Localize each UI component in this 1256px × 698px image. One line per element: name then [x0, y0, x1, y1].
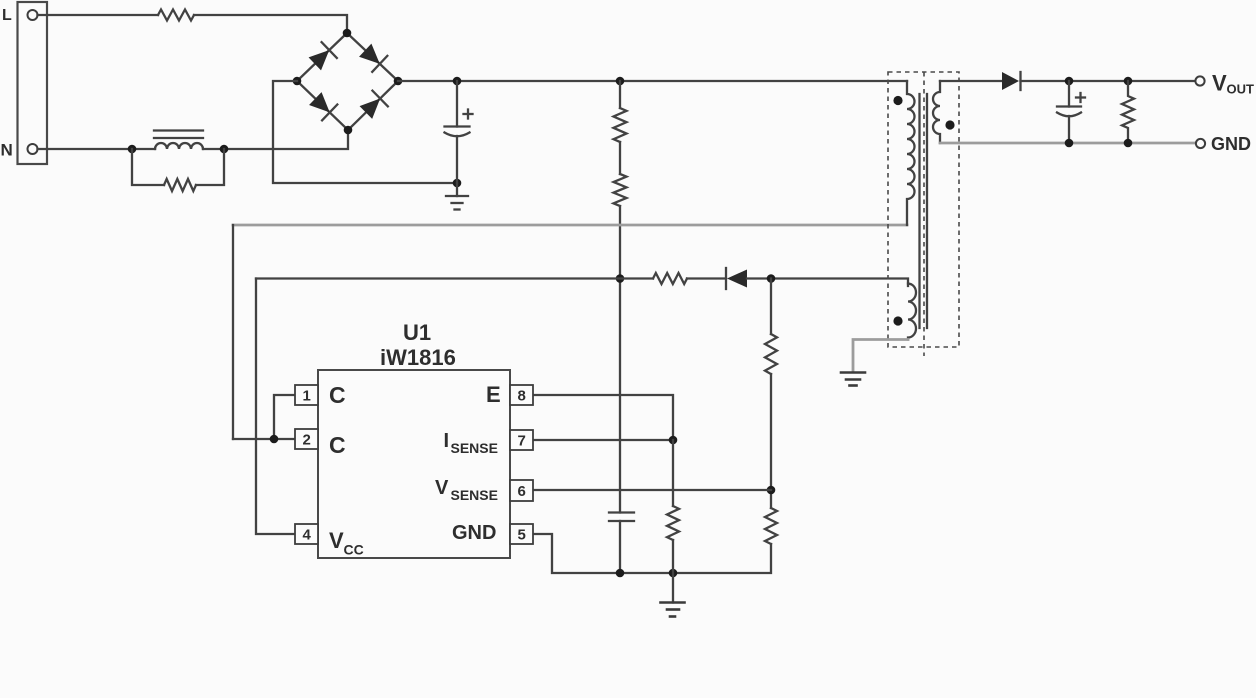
node bridge left vertex	[293, 77, 302, 86]
svg-text:N: N	[1, 141, 13, 160]
resistor R2 (choke damping)	[164, 179, 196, 191]
wire collector vertical	[232, 225, 234, 439]
pin 7 box	[510, 430, 533, 450]
node rail at bulk cap	[453, 77, 462, 86]
wire R4 down to C2	[619, 206, 621, 513]
wire to R8	[672, 440, 674, 506]
svg-text:V: V	[1212, 71, 1227, 96]
svg-text:8: 8	[518, 388, 526, 405]
resistor R6	[765, 334, 777, 374]
node gnd rail at R8	[669, 569, 678, 578]
wire bridge left leg to input ground rail	[273, 81, 457, 183]
inductor L1 common-mode choke winding	[155, 143, 203, 149]
terminal L pin circle	[28, 10, 38, 20]
node pin1-pin2 junction	[270, 435, 279, 444]
wire R7 to gnd rail corner	[533, 534, 771, 573]
wire pin1 loop	[274, 395, 295, 439]
ground signal	[661, 603, 685, 617]
wire pin2	[233, 438, 295, 440]
transformer core bar 2	[926, 94, 928, 328]
bridge rectifier BR1 diamond	[297, 33, 398, 130]
pin 6 box	[510, 480, 533, 501]
node E-Isense junction	[669, 436, 678, 445]
pin 8 box	[510, 385, 533, 405]
bridge diode D1	[307, 42, 337, 72]
capacitor C2	[609, 513, 634, 522]
bridge diode D4	[358, 91, 388, 121]
transformer aux winding	[908, 284, 916, 340]
ground input	[446, 183, 468, 210]
svg-text:I: I	[444, 430, 450, 452]
node output cap top	[1065, 77, 1074, 86]
resistor R8 (current sense)	[667, 506, 679, 540]
resistor R4	[614, 174, 627, 206]
wire output rail	[1021, 80, 1196, 82]
bridge diode D3	[308, 91, 338, 121]
svg-text:GND: GND	[452, 522, 496, 544]
svg-text:C: C	[329, 382, 346, 408]
op-amp U1 controller box	[318, 370, 510, 558]
choke core bar 1	[154, 129, 203, 131]
svg-text:SENSE: SENSE	[451, 440, 498, 456]
svg-text:U1: U1	[403, 320, 431, 345]
wire secondary top to output diode	[940, 80, 1002, 82]
svg-text:L: L	[2, 7, 12, 24]
choke core bar 2	[154, 137, 203, 139]
wire damping loop right	[196, 149, 224, 185]
wire R6 top	[770, 279, 772, 335]
wire pin6 VSENSE	[533, 489, 771, 491]
secondary phase dot	[945, 120, 954, 129]
wire VCC line left	[256, 277, 653, 279]
svg-text:SENSE: SENSE	[451, 487, 498, 503]
svg-text:iW1816: iW1816	[380, 345, 456, 370]
plus sign C1	[464, 110, 473, 119]
svg-text:OUT: OUT	[1227, 82, 1255, 97]
node rail at startup divider	[616, 77, 625, 86]
svg-text:C: C	[329, 432, 346, 458]
aux phase dot	[893, 316, 902, 325]
resistor R5	[653, 273, 687, 284]
transformer isolation dashed line	[923, 72, 925, 356]
pin 5 box	[510, 524, 533, 544]
node bridge bottom vertex	[344, 126, 353, 135]
terminal GND circle	[1196, 139, 1205, 148]
wire secondary return GND rail (gray)	[940, 142, 1196, 145]
node bulk cap bottom	[453, 179, 462, 188]
svg-text:E: E	[486, 382, 501, 407]
node VCC line at x620	[616, 274, 625, 283]
wire main DC rail	[398, 80, 907, 82]
wire fuse to bridge top	[194, 15, 347, 33]
wire collector line (primary return, gray)	[233, 224, 907, 227]
resistor R7	[765, 508, 777, 544]
node choke-right junction	[220, 145, 229, 154]
capacitor C1 bulk (+)	[445, 81, 470, 183]
resistor R3	[614, 108, 627, 142]
svg-text:V: V	[329, 528, 344, 553]
svg-text:GND: GND	[1211, 134, 1251, 154]
svg-text:1: 1	[303, 388, 311, 405]
wire choke to bridge bottom	[203, 130, 348, 149]
wire pin8 E	[533, 395, 673, 440]
wire C2 to gnd rail	[619, 521, 621, 573]
svg-text:7: 7	[518, 433, 526, 450]
wire divider top	[619, 81, 621, 108]
transformer secondary winding	[933, 81, 940, 143]
node bridge right vertex	[394, 77, 403, 86]
node GND rail at cap	[1065, 139, 1074, 148]
svg-text:2: 2	[303, 432, 311, 449]
svg-text:6: 6	[518, 483, 526, 500]
resistor R9 load	[1122, 81, 1134, 143]
capacitor C3 output (+)	[1057, 81, 1081, 143]
svg-text:5: 5	[518, 527, 526, 544]
node GND rail at resistor	[1124, 139, 1133, 148]
input terminal block J1	[18, 2, 48, 164]
svg-text:CC: CC	[344, 542, 364, 558]
wire aux return (gray)	[853, 340, 908, 373]
svg-text:V: V	[435, 477, 449, 499]
wire R6 to pin6 line	[770, 374, 772, 508]
transformer core bar 1	[918, 94, 920, 328]
node VSENSE divider top	[767, 274, 776, 283]
wire D5 to aux winding	[747, 279, 908, 287]
diode D6 output rectifier	[1002, 72, 1021, 90]
diode D5 (aux rectifier)	[726, 268, 747, 289]
node bridge top vertex	[343, 29, 352, 38]
wire N to choke	[38, 148, 156, 150]
svg-text:4: 4	[303, 527, 312, 544]
ground aux	[841, 373, 865, 386]
pin 4 box	[295, 524, 318, 544]
node VSENSE	[767, 486, 776, 495]
wire pin7 ISENSE	[533, 439, 673, 441]
resistor R1 (fuse)	[158, 10, 194, 21]
wire R8 to signal ground	[672, 540, 674, 603]
transformer primary winding	[907, 81, 915, 225]
terminal N pin circle	[28, 144, 38, 154]
node gnd rail at C2	[616, 569, 625, 578]
transformer T1 shield dashed box	[888, 72, 959, 347]
node N-choke junction	[128, 145, 137, 154]
node output resistor top	[1124, 77, 1133, 86]
plus sign C3	[1076, 93, 1085, 102]
wire damping loop left	[132, 149, 164, 185]
bridge diode D2	[358, 42, 388, 72]
wire L to fuse	[38, 14, 159, 16]
pin 1 box	[295, 385, 318, 405]
pin 2 box	[295, 429, 318, 449]
terminal VOUT circle	[1195, 76, 1204, 85]
wire between R3 R4	[619, 142, 621, 174]
wire VCC vertical to pin4	[256, 279, 295, 535]
primary phase dot	[893, 96, 902, 105]
wire R5 to D5	[687, 277, 726, 279]
